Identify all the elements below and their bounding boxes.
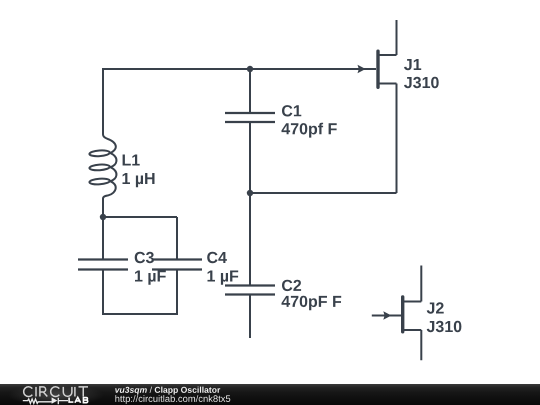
node junction top gate net [247,66,253,72]
label L1 [123,155,155,188]
footer bar [0,384,540,405]
wire right branch down to C4 [176,217,178,260]
label C4 [207,252,238,285]
wire below C2 stub [249,295,251,339]
logo diode triangle [52,397,58,403]
wire below C3 [102,270,104,315]
node middle junction [247,190,253,196]
wire source net: middle junction right and up to J1 source [250,84,397,194]
transistor J2 [372,266,422,361]
label C3 [135,252,166,285]
transistor J1 [358,20,397,87]
capacitor C1 [225,113,275,122]
wire left branch down to C3 [102,217,104,260]
wire from top junction down to C1 [249,69,251,113]
CircuitLab logo [0,380,110,405]
logo diode cathode bar and wire [58,398,68,405]
inductor L1 [89,133,116,217]
wire loop top: junction to C4 branch [103,216,177,218]
label J1 [404,59,439,88]
wire middle junction down to C2 [249,193,251,286]
logo letter C [51,387,60,397]
label C1 [282,105,337,138]
footer title and url text [0,380,260,405]
wire loop bottom [102,313,178,315]
logo letter C [24,387,33,397]
wire C1 bottom to middle junction [249,122,251,193]
logo letter U [63,387,72,397]
wire below C4 [176,270,178,315]
logo letter I [35,387,37,397]
label C2 [282,280,342,311]
capacitor C3 [78,260,128,270]
label J2 [427,302,462,332]
logo LAB letters drawn as strokes [69,397,88,402]
logo resistor zigzag [23,399,52,403]
node junction below L1 [100,214,106,220]
logo letter I [74,387,76,397]
wire top net: L1 top to J1 gate [103,68,376,70]
capacitor C2 [225,286,275,295]
logo letter R [40,387,47,397]
wire left vertical into L1 [102,68,104,133]
logo letter T [79,387,89,397]
capacitor C4 [152,260,202,270]
